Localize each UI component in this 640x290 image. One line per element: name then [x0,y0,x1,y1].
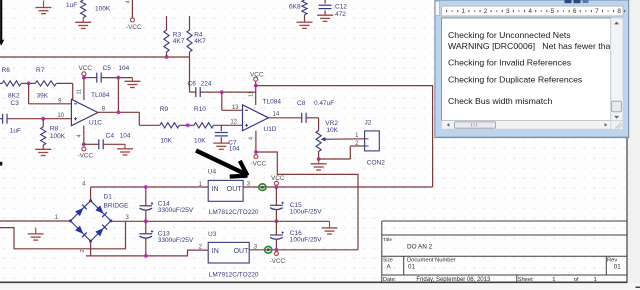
svg-text:472: 472 [335,11,346,18]
svg-text:DO AN 2: DO AN 2 [407,244,433,251]
svg-text:Date:: Date: [383,277,397,283]
svg-text:14: 14 [273,112,280,118]
svg-text:3300uF/25V: 3300uF/25V [158,207,194,214]
svg-text:J2: J2 [365,120,372,127]
svg-text:6K8: 6K8 [289,4,301,11]
svg-text:BRIDGE: BRIDGE [104,203,130,210]
svg-text:3300uF/25V: 3300uF/25V [158,237,194,244]
svg-text:2: 2 [484,8,488,15]
svg-text:-VCC: -VCC [270,258,286,265]
svg-text:-VCC: -VCC [251,161,267,168]
svg-text:10K: 10K [194,138,206,145]
svg-text:C3: C3 [11,100,20,107]
svg-text:01: 01 [614,264,621,271]
svg-text:4: 4 [528,8,532,15]
svg-text:4: 4 [249,137,255,140]
svg-text:10: 10 [57,113,64,119]
svg-text:6: 6 [573,8,577,15]
svg-text:11: 11 [76,89,82,95]
svg-text:13: 13 [232,105,239,111]
svg-text:CON2: CON2 [367,160,385,167]
svg-text:C5: C5 [103,65,112,72]
svg-text:TL084: TL084 [91,92,110,99]
svg-text:1uF: 1uF [66,2,77,9]
svg-text:1: 1 [462,8,466,15]
svg-text:VR2: VR2 [325,120,338,127]
svg-text:IN: IN [212,248,219,255]
svg-text:R8: R8 [50,126,59,133]
svg-text:IN: IN [212,186,219,193]
svg-text:4K7: 4K7 [173,38,185,45]
svg-text:10K: 10K [326,127,338,134]
svg-text:C12: C12 [335,3,347,10]
svg-text:OUT: OUT [234,248,250,255]
svg-text:U1D: U1D [264,126,277,133]
svg-text:U3: U3 [208,231,217,238]
svg-text:100K: 100K [95,6,111,13]
svg-text:VCC: VCC [271,175,285,182]
svg-text:100uF/25V: 100uF/25V [290,237,322,244]
svg-text:4: 4 [126,0,132,3]
svg-text:R7: R7 [36,67,45,74]
svg-text:8: 8 [617,8,621,15]
svg-text:U1C: U1C [89,120,102,127]
svg-text:Friday, September 06, 2013: Friday, September 06, 2013 [416,277,491,283]
svg-text:11: 11 [248,91,254,97]
svg-text:C6: C6 [188,80,197,87]
svg-text:D1: D1 [104,194,113,201]
svg-text:1uF: 1uF [10,128,21,135]
svg-text:Title: Title [383,237,392,243]
svg-text:12: 12 [230,120,237,126]
svg-text:LM7912C/TO220: LM7912C/TO220 [209,271,259,278]
svg-text:of: of [574,277,579,283]
svg-text:Size: Size [383,257,393,263]
svg-text:WARNING [DRC0006] Net has fe: WARNING [DRC0006] Net has fewer than tw [448,41,627,51]
svg-text:104: 104 [229,146,240,153]
svg-text:5: 5 [551,8,555,15]
svg-text:100uF/25V: 100uF/25V [290,209,322,216]
svg-text:Check Bus width mismatch: Check Bus width mismatch [448,96,552,106]
svg-text:8K2: 8K2 [8,93,20,100]
svg-text:4K7: 4K7 [194,38,206,45]
svg-text:Checking for Invalid Reference: Checking for Invalid References [448,58,572,68]
svg-text:1: 1 [552,277,555,283]
svg-text:1: 1 [594,277,597,283]
svg-text:2: 2 [80,249,86,252]
svg-text:104: 104 [120,133,131,140]
svg-text:104: 104 [118,65,129,72]
svg-text:Sheet: Sheet [518,277,534,283]
svg-text:OUT: OUT [227,186,243,193]
svg-text:0.47uF: 0.47uF [314,100,334,107]
svg-text:R9: R9 [160,106,169,113]
svg-text:R10: R10 [194,106,206,113]
svg-text:Checking for Unconnected Nets: Checking for Unconnected Nets [448,30,571,40]
svg-text:Checking for Duplicate Referen: Checking for Duplicate References [448,75,583,85]
svg-text:C8: C8 [297,100,306,107]
svg-text:224: 224 [201,80,212,87]
svg-text:100K: 100K [50,133,66,140]
svg-text:10K: 10K [160,138,172,145]
svg-text:TL084: TL084 [263,99,282,106]
svg-text:39K: 39K [37,93,49,100]
svg-text:VCC: VCC [79,65,93,72]
svg-text:-VCC: -VCC [126,24,142,31]
svg-text:U4: U4 [208,169,217,176]
svg-text:-VCC: -VCC [78,153,94,160]
svg-text:LM7812C/TO220: LM7812C/TO220 [209,209,259,216]
svg-text:4: 4 [77,134,83,137]
svg-text:R6: R6 [2,67,11,74]
svg-text:7: 7 [595,8,599,15]
svg-text:C4: C4 [106,133,115,140]
svg-text:3: 3 [506,8,510,15]
svg-text:01: 01 [408,264,415,271]
